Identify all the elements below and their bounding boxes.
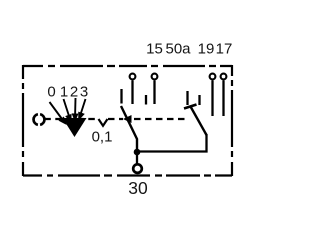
moving contact arm 1 — [121, 106, 137, 150]
svg-text:0: 0 — [47, 84, 55, 101]
mechanical linkage dashed line — [44, 119, 188, 126]
wire from arm2 to junction — [137, 134, 207, 152]
svg-text:1: 1 — [60, 84, 68, 101]
terminal 17 ring — [221, 74, 227, 80]
svg-text:0,1: 0,1 — [92, 129, 113, 146]
enclosure border right — [231, 65, 233, 176]
junction node — [134, 149, 141, 156]
enclosure border bottom — [23, 174, 232, 176]
position fan line 0 — [50, 98, 86, 123]
terminal 15 ring — [130, 74, 136, 80]
terminal 50a post — [153, 81, 155, 105]
svg-text:50a: 50a — [165, 41, 191, 58]
svg-text:30: 30 — [128, 178, 148, 198]
linkage arrowhead — [123, 115, 132, 123]
svg-text:2: 2 — [70, 84, 78, 101]
svg-text:17: 17 — [216, 41, 233, 58]
detent cam triangle — [63, 118, 87, 137]
moving contact arm 2 crossbar — [184, 105, 197, 109]
enclosure border left — [22, 65, 24, 176]
fixed contact stub A (right group) — [186, 91, 188, 105]
terminal 30 ring — [133, 164, 142, 173]
position fan line 1 — [64, 99, 70, 116]
terminal 15 post — [131, 81, 133, 105]
key switch actuator (circle with gaps) — [34, 114, 45, 125]
moving contact arm 2 — [191, 107, 207, 136]
terminal 19 post — [211, 81, 213, 117]
fixed contact stub B (right group) — [198, 95, 200, 105]
terminal 50a ring — [152, 74, 158, 80]
fixed contact stub (15) — [120, 89, 122, 104]
terminal 19 ring — [210, 74, 216, 80]
svg-text:19: 19 — [198, 41, 215, 58]
position fan line 3 — [81, 99, 86, 115]
terminal 17 post — [222, 81, 224, 117]
svg-text:15: 15 — [146, 41, 163, 58]
enclosure border top (dash-dot) — [23, 65, 232, 176]
position fan line 2 — [74, 98, 76, 115]
fixed contact stub (50a) — [145, 95, 147, 105]
detent notch 0,1 — [99, 119, 108, 126]
wire junction to terminal 30 — [136, 152, 138, 164]
svg-text:3: 3 — [80, 84, 88, 101]
